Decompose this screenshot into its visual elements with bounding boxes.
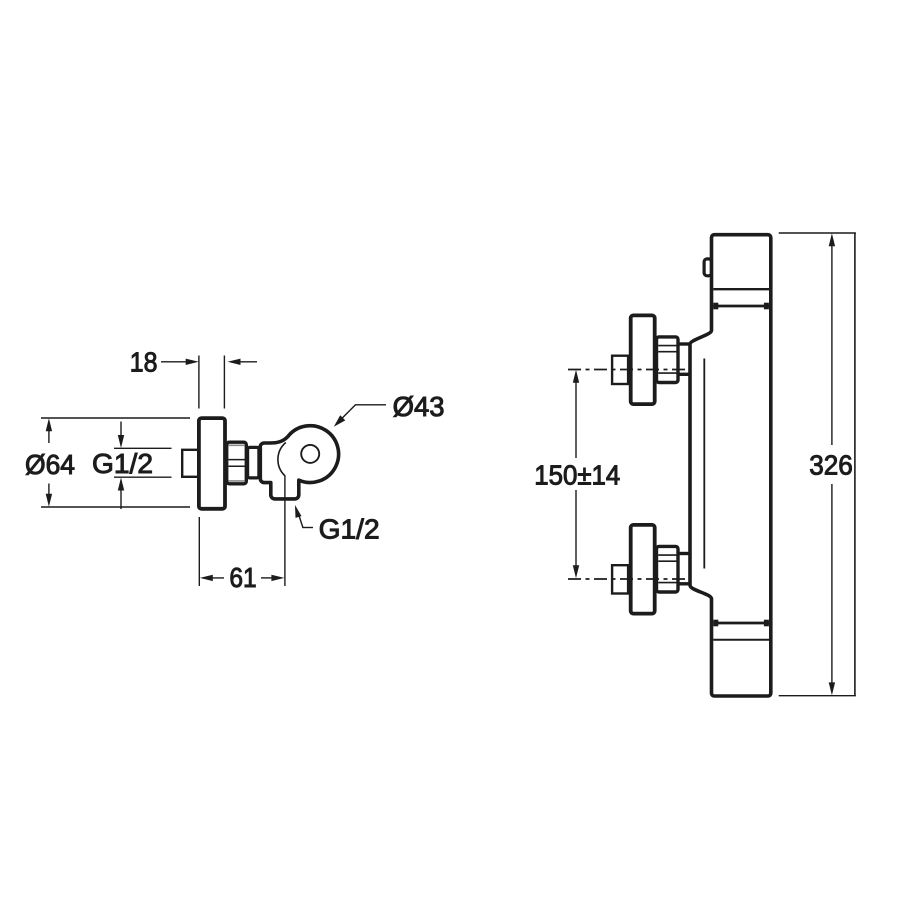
nut facet line (gray, top) <box>228 444 245 446</box>
nut facet line (gray, bottom) <box>228 480 245 482</box>
dim 61: right arrowhead <box>271 575 284 581</box>
dim G1/2 left: lower arrow line <box>120 490 122 509</box>
upper nub right <box>764 303 769 310</box>
lower nub right <box>764 620 769 627</box>
upper wall flange <box>631 315 655 404</box>
dim G1/2 left: upper arrow line <box>120 422 122 437</box>
dim 61: left extension line <box>198 517 200 586</box>
dim 61: right extension line (outlet axis) <box>284 476 286 586</box>
dim 326: lower arrow line <box>831 484 833 683</box>
nut facet line <box>228 459 245 461</box>
dim 150±14: lower arrow line <box>575 490 577 566</box>
neck/head intersection arc <box>278 443 286 477</box>
upper nut facet line <box>658 351 678 353</box>
upper union nut <box>657 337 679 383</box>
dim G1/2 left: lower arrowhead <box>118 478 124 491</box>
leader Ø43: horizontal segment <box>355 404 386 406</box>
svg-text:G1/2: G1/2 <box>92 448 153 479</box>
dim Ø64: top extension line <box>41 417 190 419</box>
svg-text:150±14: 150±14 <box>534 460 620 491</box>
upper centerline (dash-dot) <box>568 369 688 371</box>
lower nut facet line <box>658 560 678 562</box>
dim 61: left arrow line <box>207 577 224 579</box>
dim Ø64: lower arrowhead <box>46 494 52 507</box>
dim 326: upper arrowhead <box>829 233 835 246</box>
bar interior line (lower, plain) <box>713 639 769 641</box>
bar interior line (upper, with end nubs) <box>713 305 769 308</box>
bar interior line (lower, with end nubs) <box>713 622 769 625</box>
upper nut facet line <box>658 345 678 347</box>
dim Ø64: bottom extension line <box>41 506 190 508</box>
upper connector block <box>679 344 692 374</box>
lower nub left <box>713 620 718 627</box>
supply stub (wall inlet, side view) <box>182 450 199 477</box>
lower nut facet line <box>658 554 678 556</box>
dim 326: lower arrowhead <box>829 682 835 695</box>
valve body with head circle and bottom outlet <box>260 426 338 499</box>
dim 150±14: upper arrow line <box>575 382 577 458</box>
collar ring <box>248 447 259 478</box>
dim Ø64: upper arrowhead <box>46 418 52 431</box>
svg-text:326: 326 <box>809 450 853 481</box>
dim Ø64: lower arrow line <box>48 484 50 497</box>
dim 18: right arrowhead <box>228 359 241 365</box>
dim 326: top extension line <box>779 232 856 234</box>
leader Ø43: diagonal segment <box>340 405 355 420</box>
shower bar body <box>690 235 771 696</box>
lower connector block <box>679 554 692 584</box>
dim 326: bottom extension line <box>779 695 856 697</box>
upper nut facet line <box>658 372 678 374</box>
lower supply stub <box>612 565 628 593</box>
dim G1/2 left: bottom extension line <box>114 476 172 478</box>
handle hub small circle <box>301 445 319 463</box>
leader G1/2 bottom: arrowhead <box>295 505 302 518</box>
svg-text:G1/2: G1/2 <box>319 513 380 544</box>
lower union nut <box>657 546 679 592</box>
dim 150±14: upper arrowhead <box>573 370 579 383</box>
bar interior line (upper, plain) <box>713 288 769 290</box>
dim 18: left arrow line <box>161 361 193 363</box>
dim 61: left arrowhead <box>200 575 213 581</box>
dim G1/2 left: top extension line <box>114 447 172 449</box>
leader G1/2 bottom: diagonal segment <box>298 514 303 528</box>
dim 18: right extension line <box>223 356 225 409</box>
nut facet line <box>228 465 245 467</box>
dim 326: right boundary line <box>854 233 856 696</box>
wall bracket tab on bar <box>704 259 711 276</box>
upper supply stub <box>612 356 628 384</box>
dim 18: right arrow line <box>235 361 257 363</box>
dim 18: left arrowhead <box>186 359 199 365</box>
bar inner vertical face line <box>703 359 705 569</box>
svg-text:61: 61 <box>229 562 256 593</box>
dim 18: left extension line <box>198 356 200 409</box>
dim 61: right arrow line <box>261 577 277 579</box>
leader G1/2 bottom: horizontal segment <box>302 527 313 529</box>
union nut (side view) <box>227 442 247 484</box>
upper nub left <box>713 303 718 310</box>
dim 326: upper arrow line <box>831 245 833 445</box>
dim G1/2 left: upper arrowhead <box>118 435 124 448</box>
lower centerline (dash-dot) <box>568 578 688 580</box>
svg-text:Ø64: Ø64 <box>25 449 75 480</box>
lower wall flange <box>631 525 655 614</box>
svg-text:Ø43: Ø43 <box>393 391 445 422</box>
lower nut facet line <box>658 582 678 584</box>
leader Ø43: arrowhead <box>334 415 346 427</box>
dim 150±14: lower arrowhead <box>573 565 579 578</box>
svg-text:18: 18 <box>130 347 158 378</box>
wall flange (escutcheon, side view) <box>199 418 225 509</box>
dim Ø64: upper arrow line <box>48 429 50 443</box>
